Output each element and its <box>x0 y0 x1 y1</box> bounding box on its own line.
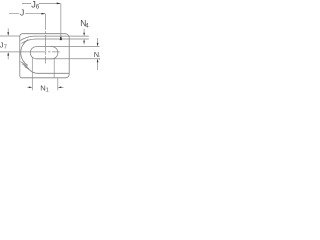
inner vertical line below slot <box>53 59 55 78</box>
plate outline <box>20 34 69 78</box>
svg-text:J: J <box>20 8 24 18</box>
N1 right arrow shaft <box>59 86 64 88</box>
slot right extension line (N1) <box>57 78 59 90</box>
serration stroke 2 <box>22 64 29 69</box>
N1 left arrow shaft <box>27 86 31 88</box>
J7 arrowhead down <box>7 32 9 36</box>
N down arrow shaft <box>97 38 99 45</box>
N4 up arrow shaft <box>83 40 85 44</box>
J7 down arrow shaft <box>7 28 9 34</box>
svg-text:2: 2 <box>99 55 100 61</box>
J6 arrowhead right <box>57 3 61 5</box>
upper rail line <box>20 36 88 41</box>
boss arc <box>21 40 28 66</box>
bottom rail line <box>31 71 69 73</box>
J6 extension vertical <box>60 3 62 37</box>
J7 arrowhead up <box>7 52 9 56</box>
svg-text:6: 6 <box>36 4 40 11</box>
serration stroke 1 <box>21 62 28 67</box>
N4 arrowhead down <box>83 33 85 36</box>
J6 arrowhead down with dot <box>60 37 62 41</box>
serration stroke 3 <box>25 67 32 72</box>
N up arrow shaft <box>97 60 99 70</box>
J arrowhead right <box>41 13 45 15</box>
J7 up arrow shaft <box>7 53 9 59</box>
horizontal centerline <box>0 51 60 53</box>
J6 dimension line <box>22 2 60 4</box>
N top extension line <box>51 46 100 48</box>
N4 down arrow shaft <box>83 29 85 35</box>
svg-text:7: 7 <box>4 45 7 51</box>
N arrowhead down <box>97 43 99 47</box>
J dimension line <box>9 13 45 15</box>
J7 top reference line <box>0 35 20 37</box>
slot (obround hole) <box>30 47 58 59</box>
lower rail line <box>21 39 88 43</box>
vertical centerline <box>45 14 47 64</box>
N4 arrowhead up <box>83 39 85 42</box>
slot left extension line (N1) <box>31 57 33 90</box>
N arrowhead up <box>97 59 99 63</box>
svg-text:1: 1 <box>46 88 49 94</box>
N1 arrowhead left <box>58 86 62 88</box>
N1 arrowhead right <box>29 86 33 88</box>
N bottom extension line <box>51 58 100 60</box>
svg-text:4: 4 <box>85 23 89 30</box>
